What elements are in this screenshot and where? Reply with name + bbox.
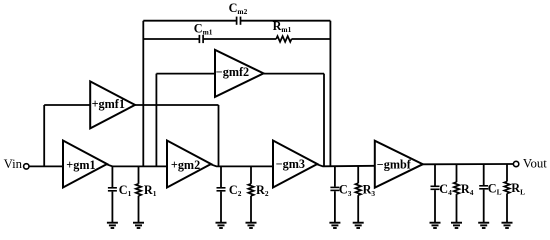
svg-text:C1: C1 bbox=[119, 183, 132, 198]
ground under R3 bbox=[353, 223, 364, 228]
wire: mid loop horizontal left of Cm1 bbox=[143, 38, 199, 40]
resistor Rm1 bbox=[276, 36, 291, 42]
capacitor C4 bbox=[431, 165, 440, 223]
wire: right riser from top loops down to node3 bbox=[329, 21, 331, 166]
ground under C1 bbox=[107, 223, 118, 228]
wire: gmf1 output horizontal to node2 riser bbox=[135, 104, 219, 106]
svg-text:+gmf1: +gmf1 bbox=[92, 97, 125, 111]
svg-text:R1: R1 bbox=[144, 183, 157, 198]
wire: Cm2 loop top-left corner vertical (node1 riser) bbox=[142, 21, 144, 167]
wire: gmf1 output riser down to node2 bbox=[218, 105, 220, 166]
svg-text:Vout: Vout bbox=[523, 156, 547, 170]
wire: Vin node riser to gmf1 input bbox=[43, 105, 45, 166]
ground under C3 bbox=[329, 223, 340, 228]
wire: gmf1 input horizontal bbox=[44, 104, 90, 106]
ground under C2 bbox=[216, 223, 227, 228]
svg-text:Cm1: Cm1 bbox=[194, 21, 213, 36]
svg-text:−gmf2: −gmf2 bbox=[216, 65, 249, 79]
wire: gmf2 output horizontal bbox=[264, 73, 325, 75]
capacitor CL bbox=[479, 164, 488, 222]
wire: node3 horizontal (gm3 output to gmbf input) bbox=[317, 164, 375, 166]
ground under CL bbox=[478, 223, 489, 228]
svg-text:+gm2: +gm2 bbox=[171, 158, 200, 172]
capacitor C2 bbox=[217, 166, 226, 222]
wire: node1 riser to gmf2 input bbox=[155, 74, 157, 167]
capacitor C1 bbox=[108, 166, 117, 222]
ground under R4 bbox=[451, 223, 462, 228]
op-amp U-gmf1 (+gmf1 transconductor) bbox=[90, 81, 135, 128]
resistor R2 bbox=[248, 166, 253, 222]
resistor RL bbox=[504, 164, 509, 223]
svg-text:Cm2: Cm2 bbox=[229, 1, 248, 16]
ground under R2 bbox=[246, 223, 257, 228]
svg-text:CL: CL bbox=[488, 181, 502, 196]
wire: mid loop horizontal Cm1 to Rm1 bbox=[203, 38, 276, 40]
svg-text:R4: R4 bbox=[461, 182, 474, 197]
wire: mid loop horizontal right of Rm1 bbox=[292, 38, 331, 40]
svg-text:R2: R2 bbox=[256, 183, 269, 198]
svg-text:−gm3: −gm3 bbox=[276, 157, 305, 171]
op-amp U-gm2 (+gm2 transconductor) bbox=[167, 141, 211, 188]
wire: node2 horizontal (gm2 output to gm3 input) bbox=[210, 164, 273, 166]
op-amp U-gm1 (+gm1 transconductor) bbox=[63, 141, 107, 188]
wire: top loop horizontal right of Cm2 bbox=[241, 20, 331, 22]
ground under RL bbox=[502, 223, 513, 228]
wire: top loop horizontal left of Cm2 bbox=[143, 20, 236, 22]
input terminal Vin bbox=[24, 164, 29, 169]
resistor R1 bbox=[136, 166, 141, 222]
output terminal Vout bbox=[513, 161, 518, 166]
wire: Vin terminal to gm1 input bbox=[29, 165, 63, 167]
ground under R1 bbox=[133, 223, 144, 228]
op-amp U-gmbf (-gmbf transconductor) bbox=[375, 141, 423, 188]
svg-text:−gmbf: −gmbf bbox=[377, 158, 412, 172]
capacitor C3 bbox=[330, 166, 339, 223]
ground under C4 bbox=[430, 223, 441, 228]
svg-text:C3: C3 bbox=[339, 183, 352, 198]
wire: gmf2 input horizontal bbox=[156, 73, 215, 75]
svg-text:+gm1: +gm1 bbox=[66, 158, 95, 172]
svg-text:Vin: Vin bbox=[4, 157, 23, 171]
resistor R3 bbox=[356, 166, 361, 223]
resistor R4 bbox=[454, 165, 459, 223]
op-amp U-gmf2 (-gmf2 transconductor) bbox=[215, 50, 264, 97]
svg-text:C2: C2 bbox=[229, 183, 242, 198]
capacitor Cm2 bbox=[237, 17, 241, 25]
svg-text:R3: R3 bbox=[363, 183, 376, 198]
wire: gmf2 output riser down to node3 bbox=[323, 74, 325, 167]
svg-text:C4: C4 bbox=[439, 182, 452, 197]
op-amp U-gm3 (-gm3 transconductor) bbox=[273, 141, 317, 188]
wire: node1 horizontal (gm1 output to gm2 input) bbox=[106, 164, 167, 166]
svg-text:RL: RL bbox=[511, 181, 525, 196]
capacitor Cm1 bbox=[199, 35, 203, 43]
wire: node4 horizontal (gmbf output to Vout) bbox=[422, 163, 514, 165]
